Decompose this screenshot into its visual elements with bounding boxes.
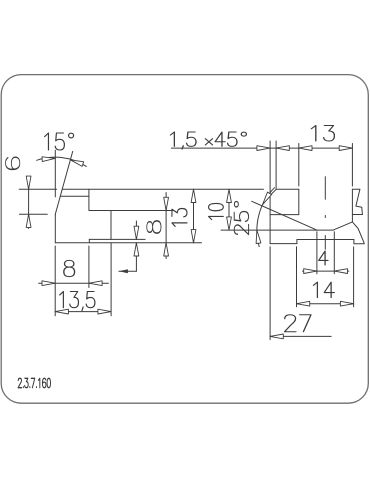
- dim 6 line: [28, 177, 30, 229]
- right part flag left edge: [351, 189, 353, 222]
- right part bottom recess: [297, 239, 354, 241]
- centerline dash 1: [324, 177, 326, 200]
- right part flag top: [352, 188, 360, 190]
- dim 13 top left extension: [298, 144, 300, 187]
- right part right 25deg inner slant: [333, 222, 352, 230]
- right part inner shelf line: [270, 214, 299, 216]
- dim 10 arrow up: [227, 189, 232, 202]
- dim 6 arrow down: [26, 176, 31, 189]
- dim 14 right extension: [353, 247, 355, 307]
- dim 8 vertical line: [165, 193, 167, 259]
- left part right edge upper: [88, 189, 90, 210]
- label 27: [284, 315, 310, 332]
- dim 4 right extension: [333, 232, 335, 274]
- dim 13 vertical arrow down: [191, 230, 196, 243]
- dim 27 extension line: [269, 247, 271, 340]
- label 25 deg rotated: [234, 202, 248, 235]
- dim 8 bottom arrow pointing left: [89, 281, 102, 286]
- right part flag zigzag edge: [356, 189, 363, 214]
- dim 14 arrow left: [297, 301, 310, 306]
- dim 13,5 right extension: [110, 243, 112, 316]
- dim 13 vertical arrow up: [191, 189, 196, 202]
- dim 6 lower extension: [19, 213, 47, 215]
- dim 14 left extension: [296, 247, 298, 307]
- dim 8 vertical arrow up: [164, 243, 169, 256]
- right part top face: [276, 188, 299, 190]
- right part chord line: [352, 214, 362, 216]
- dim 13 top right extension: [351, 144, 353, 187]
- right view slot floor long line: [221, 229, 333, 231]
- dim 27 line: [270, 335, 331, 337]
- label 15 deg: [45, 133, 74, 150]
- dim 13 top arrow right: [339, 146, 352, 151]
- dim 1 leader solid arrow: [119, 269, 128, 273]
- dim 1,5x45 and 13 top dimension line: [171, 147, 352, 149]
- left part chamfer lower edge: [60, 195, 89, 197]
- centerline dash 3: [324, 236, 326, 250]
- dim 6 arrow up: [26, 214, 31, 227]
- right part slot left wall: [298, 189, 300, 214]
- right part foot bottom: [354, 243, 364, 245]
- label 14: [313, 282, 334, 298]
- dim 4 arrow pointing left: [334, 269, 347, 274]
- right part left edge with extensions: [269, 141, 271, 244]
- left part tab top edge extended: [89, 210, 173, 212]
- angle 15 arc arrow right: [70, 160, 83, 167]
- angle 15 dimension arc: [37, 157, 87, 166]
- left part top face long line: [62, 188, 263, 190]
- dim 1,5 arrow pointing right: [257, 146, 270, 151]
- right view 25deg ramp slant: [252, 201, 317, 230]
- label 13 rotated: [172, 208, 187, 226]
- dim 1,5 right extension: [275, 141, 277, 189]
- left part left vertical edge: [54, 214, 56, 243]
- dim 13,5 arrow right: [98, 309, 111, 314]
- label 13 top: [311, 125, 334, 141]
- dim 14 line: [297, 303, 354, 305]
- left part 15deg slant edge: [55, 151, 72, 214]
- right part bottom step down: [353, 240, 355, 244]
- label 13,5: [60, 292, 95, 311]
- dim 1,5 arrow pointing left: [276, 146, 289, 151]
- angle 25 arc arrow bottom: [256, 230, 261, 243]
- dim 8 vertical arrow down: [164, 197, 169, 210]
- label 1,5 x45 deg: [170, 132, 246, 149]
- label 10 rotated: [209, 203, 224, 219]
- left part tab right edge: [110, 211, 112, 240]
- dim 8 bottom arrow pointing right: [42, 281, 55, 286]
- right part bottom left face: [270, 243, 297, 245]
- dim 4 arrow pointing right: [304, 269, 317, 274]
- label 8 bottom: [64, 260, 75, 276]
- dim 13,5 arrow left: [55, 309, 68, 314]
- dim 13 top arrow left: [299, 146, 312, 151]
- dim 27 arrow left: [270, 334, 283, 339]
- dim 1 upper line: [135, 221, 137, 239]
- dim 4 left extension: [316, 232, 318, 274]
- dim 1 arrow down: [134, 226, 139, 239]
- dim 1 lower line: [135, 243, 137, 271]
- angle 25 arc arrow top: [263, 192, 272, 205]
- dim 14 arrow right: [340, 301, 353, 306]
- right part bottom step up: [296, 240, 298, 244]
- dim 4 line: [303, 270, 349, 272]
- angle 15 vertical reference: [54, 150, 56, 197]
- left part top face extension left: [19, 188, 56, 190]
- label 2.3.7.160: [18, 378, 50, 387]
- angle 15 arc arrow left: [42, 157, 55, 162]
- dim 10 arrow down: [227, 217, 232, 230]
- dim 8 bottom left extension: [54, 246, 56, 316]
- right part chamfer 1.5x45: [270, 189, 276, 195]
- label 8 rotated: [147, 221, 161, 233]
- right part boot outer edge: [352, 222, 364, 244]
- centerline dash 2: [324, 216, 326, 218]
- dim 8 bottom line: [39, 282, 109, 284]
- label 4: [319, 251, 328, 265]
- label 6 rotated: [6, 157, 20, 169]
- border frame: [1, 75, 368, 404]
- left part bottom edge extended: [55, 242, 201, 244]
- dim 13 vertical line: [193, 189, 195, 243]
- angle 25 dimension arc: [257, 188, 275, 247]
- dim 8 bottom right extension: [88, 246, 90, 288]
- left part tab bottom edge extended: [89, 238, 145, 240]
- dim 1 arrow up: [134, 243, 139, 256]
- dim 13,5 line: [55, 311, 111, 313]
- left part step 1mm vertical: [88, 239, 90, 242]
- dim 1 leader line: [119, 270, 136, 272]
- dim 10 line: [228, 189, 230, 230]
